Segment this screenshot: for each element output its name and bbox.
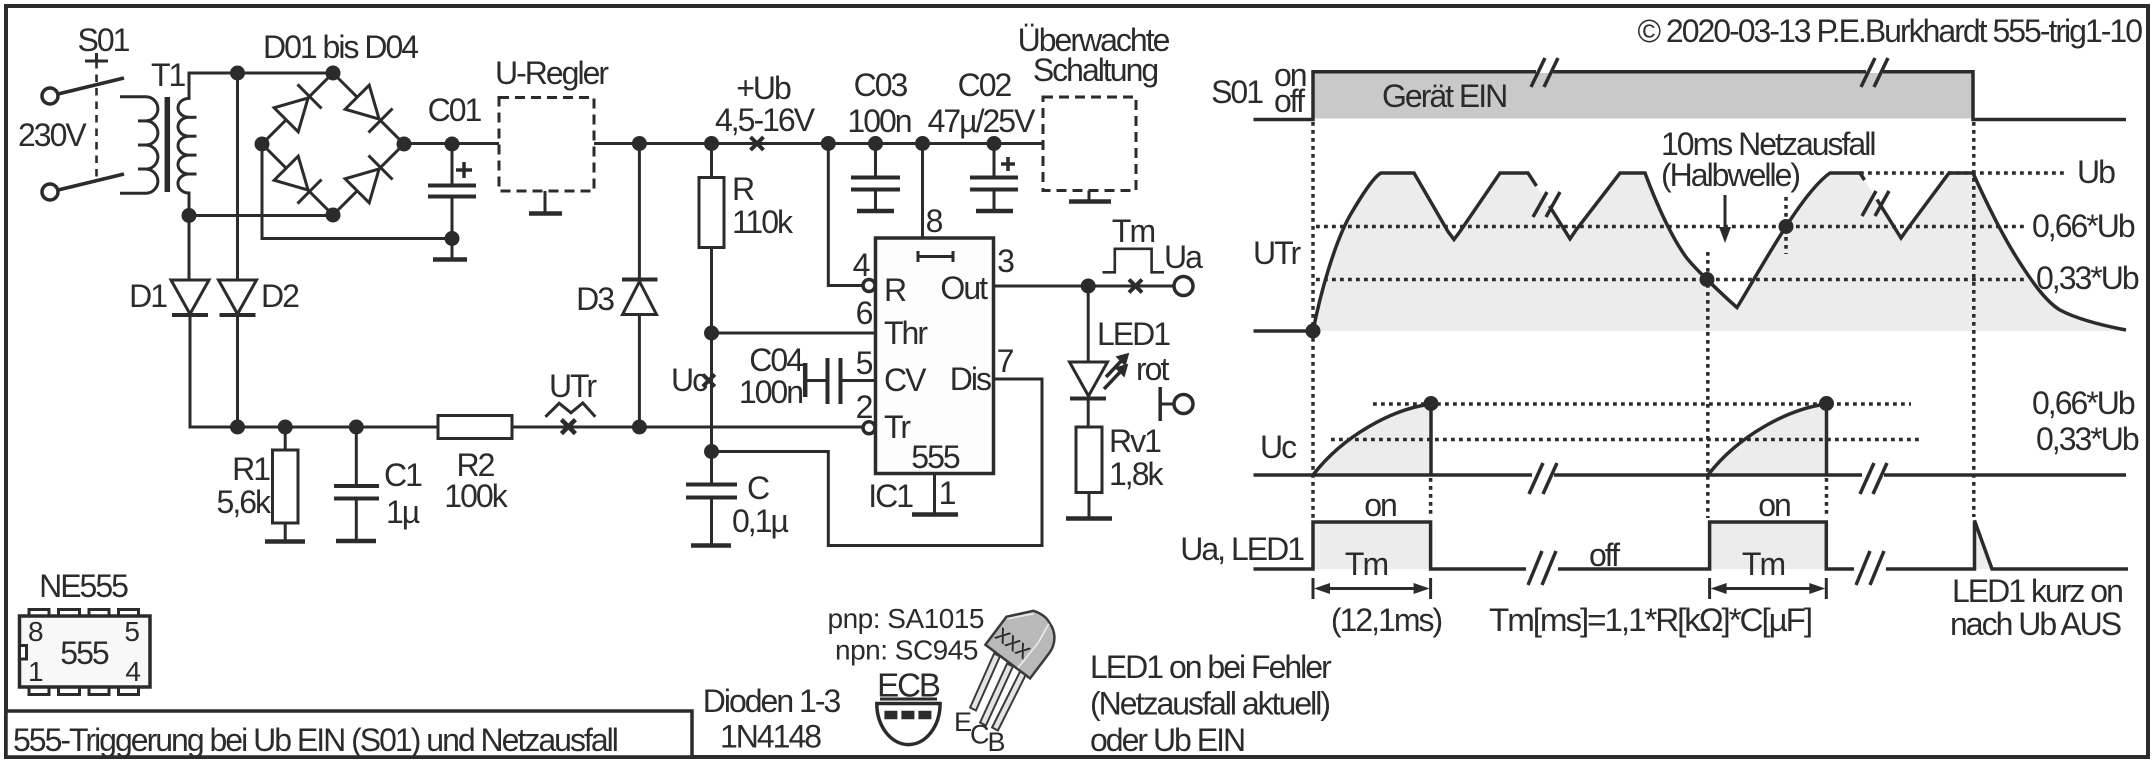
ground C [691, 543, 731, 548]
svg-text:100n: 100n [847, 103, 910, 139]
svg-text:R1: R1 [232, 451, 270, 487]
svg-text:Ua, LED1: Ua, LED1 [1180, 531, 1304, 567]
svg-text:555: 555 [911, 439, 960, 475]
Uc fill ramp2 [1708, 404, 1827, 475]
resistor Rv1 [1076, 423, 1164, 517]
svg-text:C02: C02 [958, 67, 1012, 103]
svg-text:C1: C1 [384, 457, 422, 493]
svg-text:100k: 100k [444, 478, 508, 514]
node dot pin8 [915, 136, 930, 151]
Ua trace [1254, 521, 2129, 570]
ground C1 [336, 539, 376, 544]
svg-text:4: 4 [853, 247, 870, 283]
svg-text:4: 4 [125, 656, 140, 687]
node dot Uc peak2 [1819, 396, 1834, 411]
svg-text:Ub: Ub [2077, 154, 2115, 190]
svg-text:5,6k: 5,6k [217, 484, 272, 520]
svg-text:8: 8 [926, 203, 943, 239]
capacitor C01 [428, 92, 482, 258]
dotted vertical pulse1 end [1429, 478, 1433, 518]
svg-text:nach Ub AUS: nach Ub AUS [1950, 606, 2121, 642]
svg-text:Uc: Uc [1260, 429, 1297, 465]
LED1 [1070, 286, 1171, 427]
resistor R2 [438, 416, 512, 515]
node dot transformer bottom [182, 208, 197, 223]
node dots bottom rail [230, 420, 245, 435]
svg-text:Uc: Uc [671, 362, 708, 398]
svg-text:C01: C01 [428, 92, 482, 128]
svg-text:R: R [884, 272, 906, 308]
pin 1 ground [868, 474, 955, 515]
dotted vertical S01 on [1311, 122, 1315, 518]
Tm dimension arrow 1 [1313, 578, 1431, 599]
capacitor C04 [739, 342, 876, 410]
dotted vertical pulse2 end [1825, 478, 1829, 518]
node dot D2 tap [230, 66, 245, 81]
NE555 package [20, 568, 151, 695]
Uc ramp2 [1708, 404, 1827, 475]
main +Ub rail [404, 142, 1043, 145]
svg-text:0,33*Ub: 0,33*Ub [2036, 260, 2139, 296]
node dot C01 bottom [445, 231, 460, 246]
svg-text:T1: T1 [151, 57, 186, 93]
dotted level line 0.66Ub UTr [1316, 225, 2028, 229]
UTr fill [1313, 173, 2126, 331]
svg-text:47µ/25V: 47µ/25V [928, 103, 1037, 139]
svg-text:off: off [1274, 83, 1305, 119]
node dot D3 bottom [632, 420, 647, 435]
UTr baseline stub [1254, 329, 1314, 333]
svg-text:LED1 on bei Fehler: LED1 on bei Fehler [1090, 649, 1332, 685]
S01 trace [1254, 72, 2127, 120]
svg-text:Gerät EIN: Gerät EIN [1382, 78, 1506, 114]
node dot out/LED [1081, 279, 1096, 294]
dotted vertical trigger2 [1706, 252, 1710, 518]
resistor R1 [217, 427, 298, 540]
svg-text:IC1: IC1 [868, 478, 913, 514]
UTr marker [545, 368, 597, 434]
svg-text:0,1µ: 0,1µ [732, 503, 788, 539]
Ua pulse2 fill [1710, 524, 1827, 570]
node dot Thr [704, 326, 719, 341]
svg-text:7: 7 [997, 343, 1014, 379]
wire D2 to bottom rail [236, 315, 239, 427]
break marks S01 [1531, 58, 1888, 87]
transistor TO-92 package [970, 598, 1065, 730]
node dot pin4 [821, 136, 836, 151]
svg-text:on: on [1758, 487, 1790, 523]
svg-text:CV: CV [884, 362, 927, 398]
transistor bottom view symbol [877, 704, 940, 745]
LED spike fill [1975, 521, 1993, 570]
svg-text:0,66*Ub: 0,66*Ub [2032, 385, 2135, 421]
break marks UTr [1533, 191, 1889, 217]
svg-text:6: 6 [856, 295, 873, 331]
Ua pulse1 fill [1313, 524, 1431, 570]
svg-text:C: C [970, 720, 989, 750]
svg-text:Out: Out [940, 270, 988, 306]
key symbol [1160, 387, 1193, 421]
diode D04 bottom-right [345, 155, 392, 202]
dotted level line 0.33Ub UTr [1316, 278, 2028, 282]
ground C01 [433, 257, 467, 262]
svg-text:1,8k: 1,8k [1109, 456, 1164, 492]
label Uc and x mark [671, 362, 715, 398]
ground C03 [857, 209, 894, 214]
svg-text:Thr: Thr [884, 315, 928, 351]
svg-text:S01: S01 [78, 22, 130, 58]
diode D1 [129, 278, 209, 315]
diode D3 [576, 144, 657, 428]
title box [6, 711, 692, 758]
U-Regler box [495, 55, 609, 212]
ground C02 [976, 209, 1013, 214]
svg-text:R: R [732, 171, 754, 207]
svg-text:1: 1 [939, 475, 956, 511]
pin 8 [923, 144, 943, 240]
dotted level 0.33Ub Uc [1331, 438, 1921, 442]
svg-text:oder Ub EIN: oder Ub EIN [1090, 722, 1244, 758]
S01 trace labels [1211, 57, 1306, 119]
node dot R top [704, 136, 719, 151]
svg-text:pnp: SA1015: pnp: SA1015 [828, 603, 984, 634]
svg-text:230V: 230V [18, 117, 87, 153]
wire secondary top to bridge top vertex [189, 73, 333, 98]
diode D03 bottom-left [274, 156, 321, 203]
svg-text:4,5-16V: 4,5-16V [715, 102, 816, 138]
x mark on rail [751, 137, 764, 150]
svg-text:C04: C04 [749, 342, 803, 378]
capacitor C02 [928, 67, 1037, 210]
ground IC1 [912, 512, 958, 517]
svg-text:D01 bis D04: D01 bis D04 [263, 29, 418, 65]
svg-text:3: 3 [997, 243, 1014, 279]
bridge vertex dots [326, 66, 341, 81]
Uc baseline [1254, 473, 2127, 477]
svg-text:2: 2 [856, 389, 873, 425]
svg-text:Schaltung: Schaltung [1033, 52, 1158, 88]
svg-text:5: 5 [856, 345, 873, 381]
svg-text:© 2020-03-13 P.E.Burkhardt 555: © 2020-03-13 P.E.Burkhardt 555-trig1-10 [1637, 13, 2142, 49]
Uc ramp1 [1313, 404, 1431, 475]
svg-text:555: 555 [60, 635, 109, 671]
capacitor C03 [847, 67, 910, 210]
label ECB underlined [877, 667, 940, 704]
node dot UTr 0.33 crossing [1700, 272, 1715, 287]
svg-text:U-Regler: U-Regler [495, 55, 609, 91]
svg-text:D3: D3 [576, 281, 614, 317]
svg-text:off: off [1589, 537, 1620, 573]
terminal Ua [1174, 277, 1193, 296]
node dot D3 top [632, 136, 647, 151]
svg-text:B: B [988, 727, 1005, 757]
wire D1 line [188, 216, 191, 281]
node dot C01 top [445, 137, 460, 152]
diode D2 [219, 278, 300, 315]
arrow Netzausfall [1719, 195, 1731, 243]
svg-text:S01: S01 [1211, 74, 1263, 110]
node dot UTr 0.66 crossing [1779, 219, 1794, 234]
ground Ueberwachte [1069, 199, 1111, 204]
wire Thr [712, 332, 876, 335]
svg-text:npn: SC945: npn: SC945 [835, 635, 978, 666]
node dot UTr start [1306, 324, 1321, 339]
node dot Uc peak1 [1424, 396, 1439, 411]
wire secondary bottom to bridge bottom vertex [189, 214, 333, 217]
diode D02 top-right [345, 85, 392, 132]
ground U-Regler [529, 211, 562, 216]
ground Rv1 [1066, 516, 1112, 521]
svg-text:Tr: Tr [884, 409, 911, 445]
svg-text:1: 1 [28, 656, 43, 687]
switch S01 [42, 22, 130, 200]
svg-text:8: 8 [28, 616, 43, 647]
svg-text:100n: 100n [739, 374, 802, 410]
svg-text:D2: D2 [261, 278, 299, 314]
svg-text:C03: C03 [854, 67, 908, 103]
Tm pulse symbol [1103, 213, 1165, 272]
svg-text:110k: 110k [732, 204, 794, 240]
svg-text:on: on [1364, 487, 1396, 523]
wire D2 line [236, 73, 239, 280]
IC1 555 box [876, 238, 994, 475]
dotted vertical 0.66 recross [1784, 197, 1788, 254]
dotted level line Ub [1860, 171, 2067, 175]
Ueberwachte Schaltung box [1018, 22, 1170, 200]
dotted vertical S01 off [1972, 122, 1976, 517]
break marks Uc [1529, 463, 1887, 494]
svg-text:Ua: Ua [1164, 239, 1203, 275]
svg-text:E: E [954, 707, 971, 737]
svg-text:Tm: Tm [1345, 546, 1388, 582]
svg-text:+Ub: +Ub [736, 70, 791, 106]
S01 trace gray band [1313, 73, 1973, 119]
svg-text:rot: rot [1136, 351, 1169, 387]
wire bridge minus rail [262, 144, 452, 239]
svg-text:UTr: UTr [549, 368, 597, 404]
svg-text:Tm: Tm [1112, 213, 1155, 249]
Tm dimension arrow 2 [1710, 578, 1827, 599]
capacitor C [686, 470, 788, 544]
break marks Ua [1528, 551, 1884, 585]
svg-text:(Halbwelle): (Halbwelle) [1661, 157, 1799, 193]
wire D1 to bottom rail [190, 315, 863, 427]
svg-text:LED1: LED1 [1097, 316, 1170, 352]
svg-text:5: 5 [124, 616, 139, 647]
ground R1 [265, 539, 305, 544]
bridge rectifier diamond [262, 73, 404, 215]
svg-text:Dis: Dis [950, 361, 991, 397]
svg-text:1µ: 1µ [386, 494, 420, 530]
svg-text:Tm: Tm [1742, 546, 1785, 582]
pin 4 reset [828, 144, 875, 292]
svg-text:LED1 kurz on: LED1 kurz on [1952, 573, 2122, 609]
Uc fill ramp1 [1313, 404, 1431, 475]
svg-text:Dioden 1-3: Dioden 1-3 [703, 683, 841, 719]
node dot C03 [868, 136, 883, 151]
svg-text:Rv1: Rv1 [1109, 423, 1161, 459]
svg-text:NE555: NE555 [39, 568, 128, 604]
svg-text:Tm[ms]=1,1*R[kΩ]*C[µF]: Tm[ms]=1,1*R[kΩ]*C[µF] [1489, 602, 1811, 638]
labels E C B [954, 707, 1005, 757]
svg-text:(12,1ms): (12,1ms) [1331, 602, 1442, 638]
dotted level 0.66Ub Uc [1373, 402, 1911, 406]
pin 2 trigger [856, 389, 875, 434]
node dot C02 [987, 136, 1002, 151]
diode D01 top-left [274, 84, 321, 131]
svg-text:UTr: UTr [1253, 235, 1301, 271]
svg-text:555-Triggerung bei Ub EIN (S01: 555-Triggerung bei Ub EIN (S01) und Netz… [13, 722, 617, 758]
svg-text:D1: D1 [129, 278, 167, 314]
wire Dis return [712, 379, 1043, 546]
pin 3 out wire [994, 243, 1175, 286]
svg-text:0,66*Ub: 0,66*Ub [2032, 208, 2135, 244]
node dot Uc/Dis [704, 444, 719, 459]
resistor R 110k [699, 144, 794, 485]
svg-text:(Netzausfall aktuell): (Netzausfall aktuell) [1090, 686, 1329, 722]
x mark on out wire [1129, 280, 1142, 293]
svg-text:0,33*Ub: 0,33*Ub [2036, 421, 2139, 457]
transformer T1 [120, 57, 197, 216]
svg-text:1N4148: 1N4148 [720, 719, 821, 755]
svg-text:C: C [747, 470, 769, 506]
capacitor C1 [334, 427, 422, 539]
UTr waveform [1313, 173, 2126, 331]
